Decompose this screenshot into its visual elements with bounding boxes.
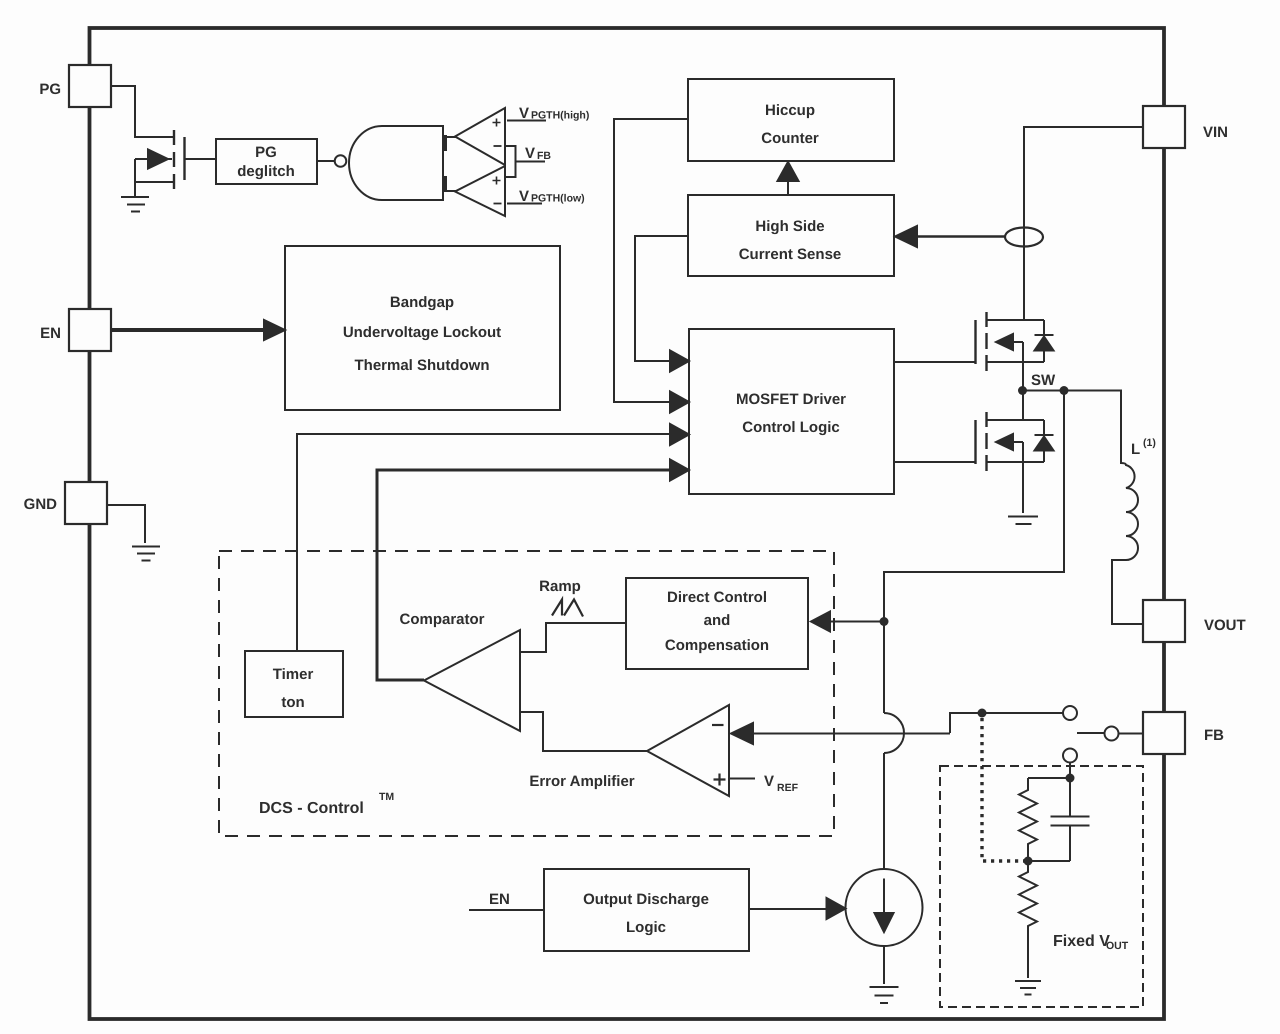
wire SW node to control feedback (884, 391, 1064, 622)
svg-text:DCS - Control: DCS - Control (259, 800, 364, 817)
svg-text:EN: EN (489, 891, 510, 908)
svg-text:MOSFET Driver: MOSFET Driver (736, 391, 846, 408)
ground at Q3 source (121, 197, 149, 212)
dotted wire fixed feedback option (982, 718, 1024, 861)
svg-text:(1): (1) (1143, 437, 1156, 449)
node divider mid (1024, 857, 1033, 866)
svg-text:PG: PG (255, 144, 277, 161)
svg-text:Undervoltage Lockout: Undervoltage Lockout (343, 324, 501, 341)
switch blade (1077, 732, 1104, 734)
svg-text:OUT: OUT (1106, 940, 1129, 952)
inductor L1 (1112, 463, 1143, 624)
svg-text:VIN: VIN (1203, 124, 1228, 141)
wire timer to driver logic input 3 (297, 434, 676, 651)
svg-text:REF: REF (777, 782, 799, 794)
svg-text:PG: PG (39, 81, 61, 98)
node dot FB tap (978, 709, 987, 718)
block MOSFET Driver Control Logic (689, 329, 894, 494)
wire VPGTH(high) lead (507, 120, 546, 122)
pin EN arrow to Bandgap (111, 328, 268, 332)
wire ramp to comparator input (520, 623, 626, 652)
node SW (1018, 386, 1027, 395)
comparator U2 PGTH high (455, 108, 505, 165)
wire hop over FB line (884, 713, 904, 753)
body diode D2 (1035, 420, 1054, 462)
wire Q3 gate to PG deglitch (185, 158, 216, 160)
dashed box DCS-Control (219, 551, 834, 836)
svg-text:Timer: Timer (273, 666, 314, 683)
svg-text:Logic: Logic (626, 919, 666, 936)
current source I1 (846, 869, 923, 946)
svg-text:Ramp: Ramp (539, 578, 581, 595)
svg-text:Compensation: Compensation (665, 637, 769, 654)
wire High Side to driver logic input 1 (635, 236, 688, 361)
svg-text:Direct Control: Direct Control (667, 589, 767, 606)
ground at R2 (1015, 981, 1041, 995)
svg-text:Hiccup: Hiccup (765, 102, 815, 119)
transistor Q2 low-side MOSFET (976, 390, 1045, 513)
NAND input pin ticks (443, 135, 447, 192)
arrow High Side to Hiccup Counter (787, 176, 789, 195)
arrow sense to High Side Current Sense (916, 235, 1005, 237)
error amp plus (714, 774, 726, 786)
switch contact middle (1105, 727, 1119, 741)
block Direct Control and Compensation (626, 578, 808, 669)
wire switch bottom contact to divider (1069, 763, 1071, 779)
comparator U4 (424, 630, 520, 731)
pin EN (69, 309, 111, 351)
switch contact top (1063, 706, 1077, 720)
wire Q1 source to SW (1022, 342, 1024, 390)
wire error amp output to comparator input (520, 712, 647, 751)
svg-text:Thermal Shutdown: Thermal Shutdown (355, 357, 490, 374)
svg-text:Fixed V: Fixed V (1053, 933, 1110, 950)
svg-text:Bandgap: Bandgap (390, 294, 454, 311)
comparator U2 plus (493, 119, 501, 127)
wire GND pin to ground (107, 505, 145, 543)
NAND gate U1 bubble (335, 155, 347, 167)
wire deglitch to NAND bubble (317, 160, 334, 162)
capacitor C1 (1051, 778, 1090, 861)
comparator U3 minus (494, 203, 502, 205)
comparator U3 PGTH low (455, 166, 505, 216)
svg-text:Control Logic: Control Logic (742, 419, 840, 436)
svg-text:V: V (525, 145, 535, 162)
ramp waveform glyph (552, 600, 583, 617)
svg-text:TM: TM (379, 791, 394, 803)
comparator U3 plus (493, 177, 501, 185)
transistor Q3 PG open-drain FET (135, 130, 185, 197)
wire comparator output to driver logic input 4 (377, 470, 674, 680)
svg-text:PGTH(low): PGTH(low) (531, 193, 585, 205)
block Output Discharge Logic (544, 869, 749, 951)
NAND input stubs to comparators (447, 137, 456, 191)
svg-text:Comparator: Comparator (399, 611, 484, 628)
svg-text:V: V (519, 105, 529, 122)
pin VOUT (1143, 600, 1185, 642)
svg-text:FB: FB (537, 150, 551, 162)
svg-text:FB: FB (1204, 727, 1224, 744)
dashed box Fixed VOUT (940, 766, 1143, 1007)
comparator U2 minus (494, 145, 502, 147)
wire SW to inductor (1023, 391, 1121, 465)
pin PG (69, 65, 111, 107)
wire Hiccup to driver logic input 2 (614, 119, 688, 402)
svg-text:V: V (519, 188, 529, 205)
ground at current source (870, 987, 899, 1003)
resistor R2 (1019, 861, 1037, 978)
body diode D1 (1035, 320, 1054, 362)
wire driver to Q2 gate (894, 461, 975, 463)
svg-text:L: L (1131, 441, 1140, 458)
wire PG pin to Q3 drain (110, 86, 174, 137)
wire VREF stub (729, 778, 755, 780)
svg-text:Current Sense: Current Sense (739, 246, 842, 263)
wire FB sense line (950, 713, 1063, 733)
svg-text:and: and (704, 612, 731, 629)
wire feedback down to hop (883, 622, 885, 714)
error amplifier U5 (647, 705, 729, 796)
svg-text:GND: GND (24, 496, 58, 513)
svg-text:High Side: High Side (755, 218, 824, 235)
wire VPGTH(low) lead (507, 203, 542, 205)
error amp minus (712, 724, 724, 726)
svg-text:SW: SW (1031, 372, 1056, 389)
block Bandgap Undervoltage Lockout Thermal Shutdown (285, 246, 560, 410)
pin GND (65, 482, 107, 524)
arrow FB line into error amp (752, 733, 950, 735)
block PG deglitch (216, 139, 317, 184)
node VFB bracket (505, 146, 545, 177)
svg-text:ton: ton (281, 694, 304, 711)
svg-text:Error Amplifier: Error Amplifier (529, 773, 634, 790)
switch contact bottom (1063, 749, 1077, 763)
svg-text:deglitch: deglitch (237, 163, 295, 180)
wire driver to Q1 gate (894, 361, 975, 363)
wire VIN to sense ellipse and Q1 drain (1024, 127, 1143, 320)
svg-text:VOUT: VOUT (1204, 617, 1246, 634)
arrow into Direct Control (828, 621, 884, 623)
block Timer ton (245, 651, 343, 717)
svg-text:Counter: Counter (761, 130, 819, 147)
node junction dot on feedback (880, 617, 889, 626)
sense ellipse on VIN line (1005, 228, 1043, 247)
pin FB (1143, 712, 1185, 754)
block High Side Current Sense (688, 195, 894, 276)
wire FB pin to switch (1119, 733, 1144, 735)
svg-text:EN: EN (40, 325, 61, 342)
transistor Q1 high-side MOSFET (976, 312, 1045, 390)
wire hop to current source (883, 753, 885, 870)
pin VIN (1143, 106, 1185, 148)
block Hiccup Counter (688, 79, 894, 161)
svg-text:PGTH(high): PGTH(high) (531, 110, 589, 122)
resistor R1 (1019, 778, 1037, 861)
wire EN to Output Discharge Logic (469, 909, 544, 911)
NAND gate U1 body (349, 126, 443, 200)
ground at GND pin (132, 547, 160, 561)
svg-text:V: V (764, 773, 774, 790)
node divider top (1066, 774, 1075, 783)
ground at Q2 source (1008, 517, 1038, 525)
wire current source to ground (883, 946, 885, 984)
svg-text:Output Discharge: Output Discharge (583, 891, 709, 908)
arrow discharge logic to current source (749, 908, 830, 910)
